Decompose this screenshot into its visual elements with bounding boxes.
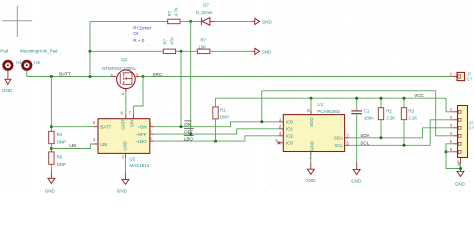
wire U2 GND down (124, 158, 126, 173)
wire U1 VDD to rail (310, 98, 312, 110)
svg-text:GND: GND (351, 178, 362, 183)
wire OFF drop vertical (190, 21, 192, 134)
svg-text:C1: C1 (364, 109, 370, 114)
svg-text:2.2K: 2.2K (408, 116, 417, 121)
svg-text:C?: C? (467, 76, 473, 81)
wire gate Q1 down to U2 (125, 92, 127, 115)
svg-text:GND: GND (262, 19, 273, 24)
svg-text:BATT: BATT (59, 72, 71, 78)
svg-text:GND: GND (261, 49, 272, 54)
svg-text:LBI: LBI (69, 143, 76, 148)
resistor R4 DNP (49, 131, 66, 152)
svg-text:H2: H2 (34, 60, 40, 65)
svg-text:R + 0: R + 0 (133, 38, 145, 43)
svg-text:U2: U2 (129, 157, 135, 162)
mounting hole pad H1 (4, 61, 12, 69)
svg-text:SRC: SRC (129, 117, 134, 127)
junction second rail / ON drop (180, 50, 183, 53)
ground power symbol below U2 (117, 179, 129, 193)
svg-text:GND: GND (455, 182, 466, 187)
resistor R5 DNP (49, 152, 66, 178)
svg-text:R?: R? (163, 38, 168, 44)
junction BATT / R4 divider (50, 75, 53, 78)
svg-text:VDD: VDD (309, 117, 314, 127)
wire zener to GND flag (214, 20, 251, 22)
IC U2 MAX1614 (93, 110, 155, 167)
wire junction to pin6 (446, 151, 452, 153)
transistor Q1 NTMFS5C430NL (102, 57, 143, 96)
svg-text:GATE: GATE (121, 118, 126, 130)
wire VCC rail (216, 97, 447, 99)
wire LBO net U2 pin3 to U1 IO2 (154, 136, 278, 141)
svg-text:4.7K: 4.7K (174, 7, 179, 16)
svg-text:GND: GND (310, 140, 315, 151)
svg-text:R4: R4 (57, 132, 63, 137)
svg-text:47K: 47K (169, 37, 174, 45)
sheet origin crosshair (2, 6, 32, 37)
svg-text:NTMFS5C430NL: NTMFS5C430NL (102, 66, 136, 71)
wire SDA net to J3 pin3 (349, 128, 452, 138)
junction second rail start (89, 50, 92, 53)
svg-text:U1: U1 (317, 102, 323, 107)
svg-text:100n: 100n (364, 116, 374, 121)
svg-text:BATT: BATT (100, 125, 111, 130)
wire SCL net to J3 pin2 (349, 120, 452, 146)
svg-text:DNP: DNP (57, 139, 66, 144)
svg-text:SCL: SCL (334, 143, 343, 148)
junction ON / drop from 47K rail (180, 125, 183, 128)
svg-text:LBI: LBI (100, 142, 107, 147)
svg-text:SDA: SDA (360, 133, 370, 138)
ground power symbol right of 10K (251, 48, 272, 54)
wire U1 GND down (310, 156, 312, 162)
junction MP / ground (459, 167, 462, 170)
wire H2 down to BATT rail (26, 71, 28, 77)
resistor R1 DNP (213, 98, 229, 141)
wire VCC to J3 pin1 (446, 98, 452, 112)
svg-text:GND: GND (45, 188, 56, 193)
svg-text:IO1: IO1 (286, 127, 294, 132)
svg-text:GND: GND (117, 189, 128, 194)
junction OFF / drop from zener rail (189, 133, 192, 136)
svg-text:IO2: IO2 (286, 134, 294, 139)
svg-text:GND: GND (2, 88, 13, 93)
ground power symbol below H1 (2, 79, 13, 93)
svg-text:10K: 10K (199, 44, 207, 49)
wire IO0 bypass to J3 pin4 (262, 91, 453, 136)
svg-text:R2: R2 (386, 109, 392, 114)
svg-text:IO3: IO3 (286, 141, 294, 146)
no-connect cross on IO3 (277, 141, 280, 144)
svg-text:R1,: R1, (220, 107, 227, 112)
svg-text:Pad: Pad (0, 48, 9, 53)
wire second rail (90, 50, 163, 52)
svg-text:DNP: DNP (220, 114, 229, 119)
resistor R? 47K (163, 37, 198, 54)
svg-text:PCA9536D: PCA9536D (317, 109, 340, 114)
wire ON drop vertical (180, 51, 182, 126)
svg-text:Q1: Q1 (121, 57, 128, 62)
wire C1 to ground (356, 114, 358, 163)
svg-text:~LBO: ~LBO (135, 139, 147, 144)
resistor R2 2.2K (378, 98, 395, 138)
net label LBO (184, 135, 194, 141)
wire ON net U2 pin1 to U1 IO0 (154, 122, 278, 127)
svg-text:2.2K: 2.2K (386, 116, 395, 121)
svg-text:C?: C? (469, 126, 474, 131)
svg-text:GND: GND (305, 178, 316, 183)
mounting hole pad H2 (23, 61, 31, 69)
wire BATT horizontal rail (27, 76, 113, 78)
svg-text:R3: R3 (408, 109, 414, 114)
junction R2 top on VCC rail (380, 97, 383, 100)
ground power symbol below J3 (455, 171, 466, 186)
svg-text:MountingHole_Pad: MountingHole_Pad (20, 48, 58, 53)
IC U1 PCA9536D (275, 102, 349, 161)
svg-text:MAX1614: MAX1614 (129, 163, 149, 168)
ground power symbol right of zener (251, 18, 272, 24)
svg-text:R+Zener: R+Zener (133, 25, 152, 30)
wire OFF net U2 pin2 to U1 IO1 (154, 129, 278, 134)
junction U1 VDD on VCC rail (310, 97, 313, 100)
svg-text:IO0: IO0 (286, 120, 294, 125)
ground power symbol below C1 (351, 169, 362, 183)
mounting pin MP of J3 (456, 158, 461, 172)
comment text R+Zener (133, 25, 152, 43)
svg-text:ON: ON (184, 122, 191, 127)
junction SCL / R3 (403, 144, 406, 147)
resistor R3 2.2K (401, 98, 417, 145)
wire branch to U2 BATT pin (51, 126, 93, 128)
wire SRC long horizontal to J2 (143, 76, 452, 78)
capacitor C1 100n (351, 98, 374, 120)
svg-text:VCC: VCC (414, 93, 424, 98)
junction C1 on VCC rail (355, 97, 358, 100)
svg-text:SDA: SDA (334, 136, 343, 141)
junction SRC node (142, 75, 145, 78)
junction LBO / R1 (214, 140, 217, 143)
svg-text:LBO: LBO (184, 136, 194, 141)
junction BATT / branch to top rails (89, 75, 92, 78)
wire BATT divider down (50, 77, 52, 132)
connector J3 6-pin header (450, 106, 474, 158)
resistor R? 10K (197, 37, 251, 53)
junction R3 top on VCC rail (403, 97, 406, 100)
svg-text:D_Zener: D_Zener (196, 10, 213, 15)
junction top rail / zener / OFF drop (189, 20, 192, 23)
wire H1 to ground (7, 71, 9, 80)
ground power symbol below U1 (305, 169, 316, 183)
zener diode D? D_Zener (191, 2, 214, 25)
junction LBI tap (50, 147, 53, 150)
ground power symbol below R5 (45, 178, 56, 193)
svg-text:R?: R? (167, 10, 172, 16)
svg-text:OFF: OFF (184, 129, 193, 134)
net label OFF (184, 128, 194, 134)
svg-text:D?: D? (203, 2, 209, 7)
wire top rail (90, 20, 168, 22)
junction IO0 branch (260, 120, 263, 123)
junction U2 BATT branch (50, 125, 53, 128)
svg-text:~ON: ~ON (137, 124, 146, 129)
svg-text:R5: R5 (57, 154, 63, 159)
svg-text:GND: GND (123, 140, 128, 151)
svg-text:SCL: SCL (360, 141, 369, 146)
wire J3 pin5 pin6 ground tie (446, 144, 461, 169)
net label ON (184, 121, 191, 127)
resistor R? 4.7K (167, 7, 191, 23)
svg-text:R?: R? (201, 37, 207, 42)
wire LBI tap to U2 (51, 144, 93, 149)
wire SRC down to U2 (134, 77, 143, 115)
svg-text:~OFF: ~OFF (135, 132, 147, 137)
junction SDA / R2 (380, 136, 383, 139)
svg-text:MP: MP (456, 160, 461, 166)
wire branch up to top rails (89, 21, 91, 76)
connector J2 single pin (450, 71, 473, 81)
svg-text:Or: Or (133, 31, 139, 36)
svg-text:DNP: DNP (57, 162, 66, 167)
junction J3 pin6 tie (445, 150, 448, 153)
